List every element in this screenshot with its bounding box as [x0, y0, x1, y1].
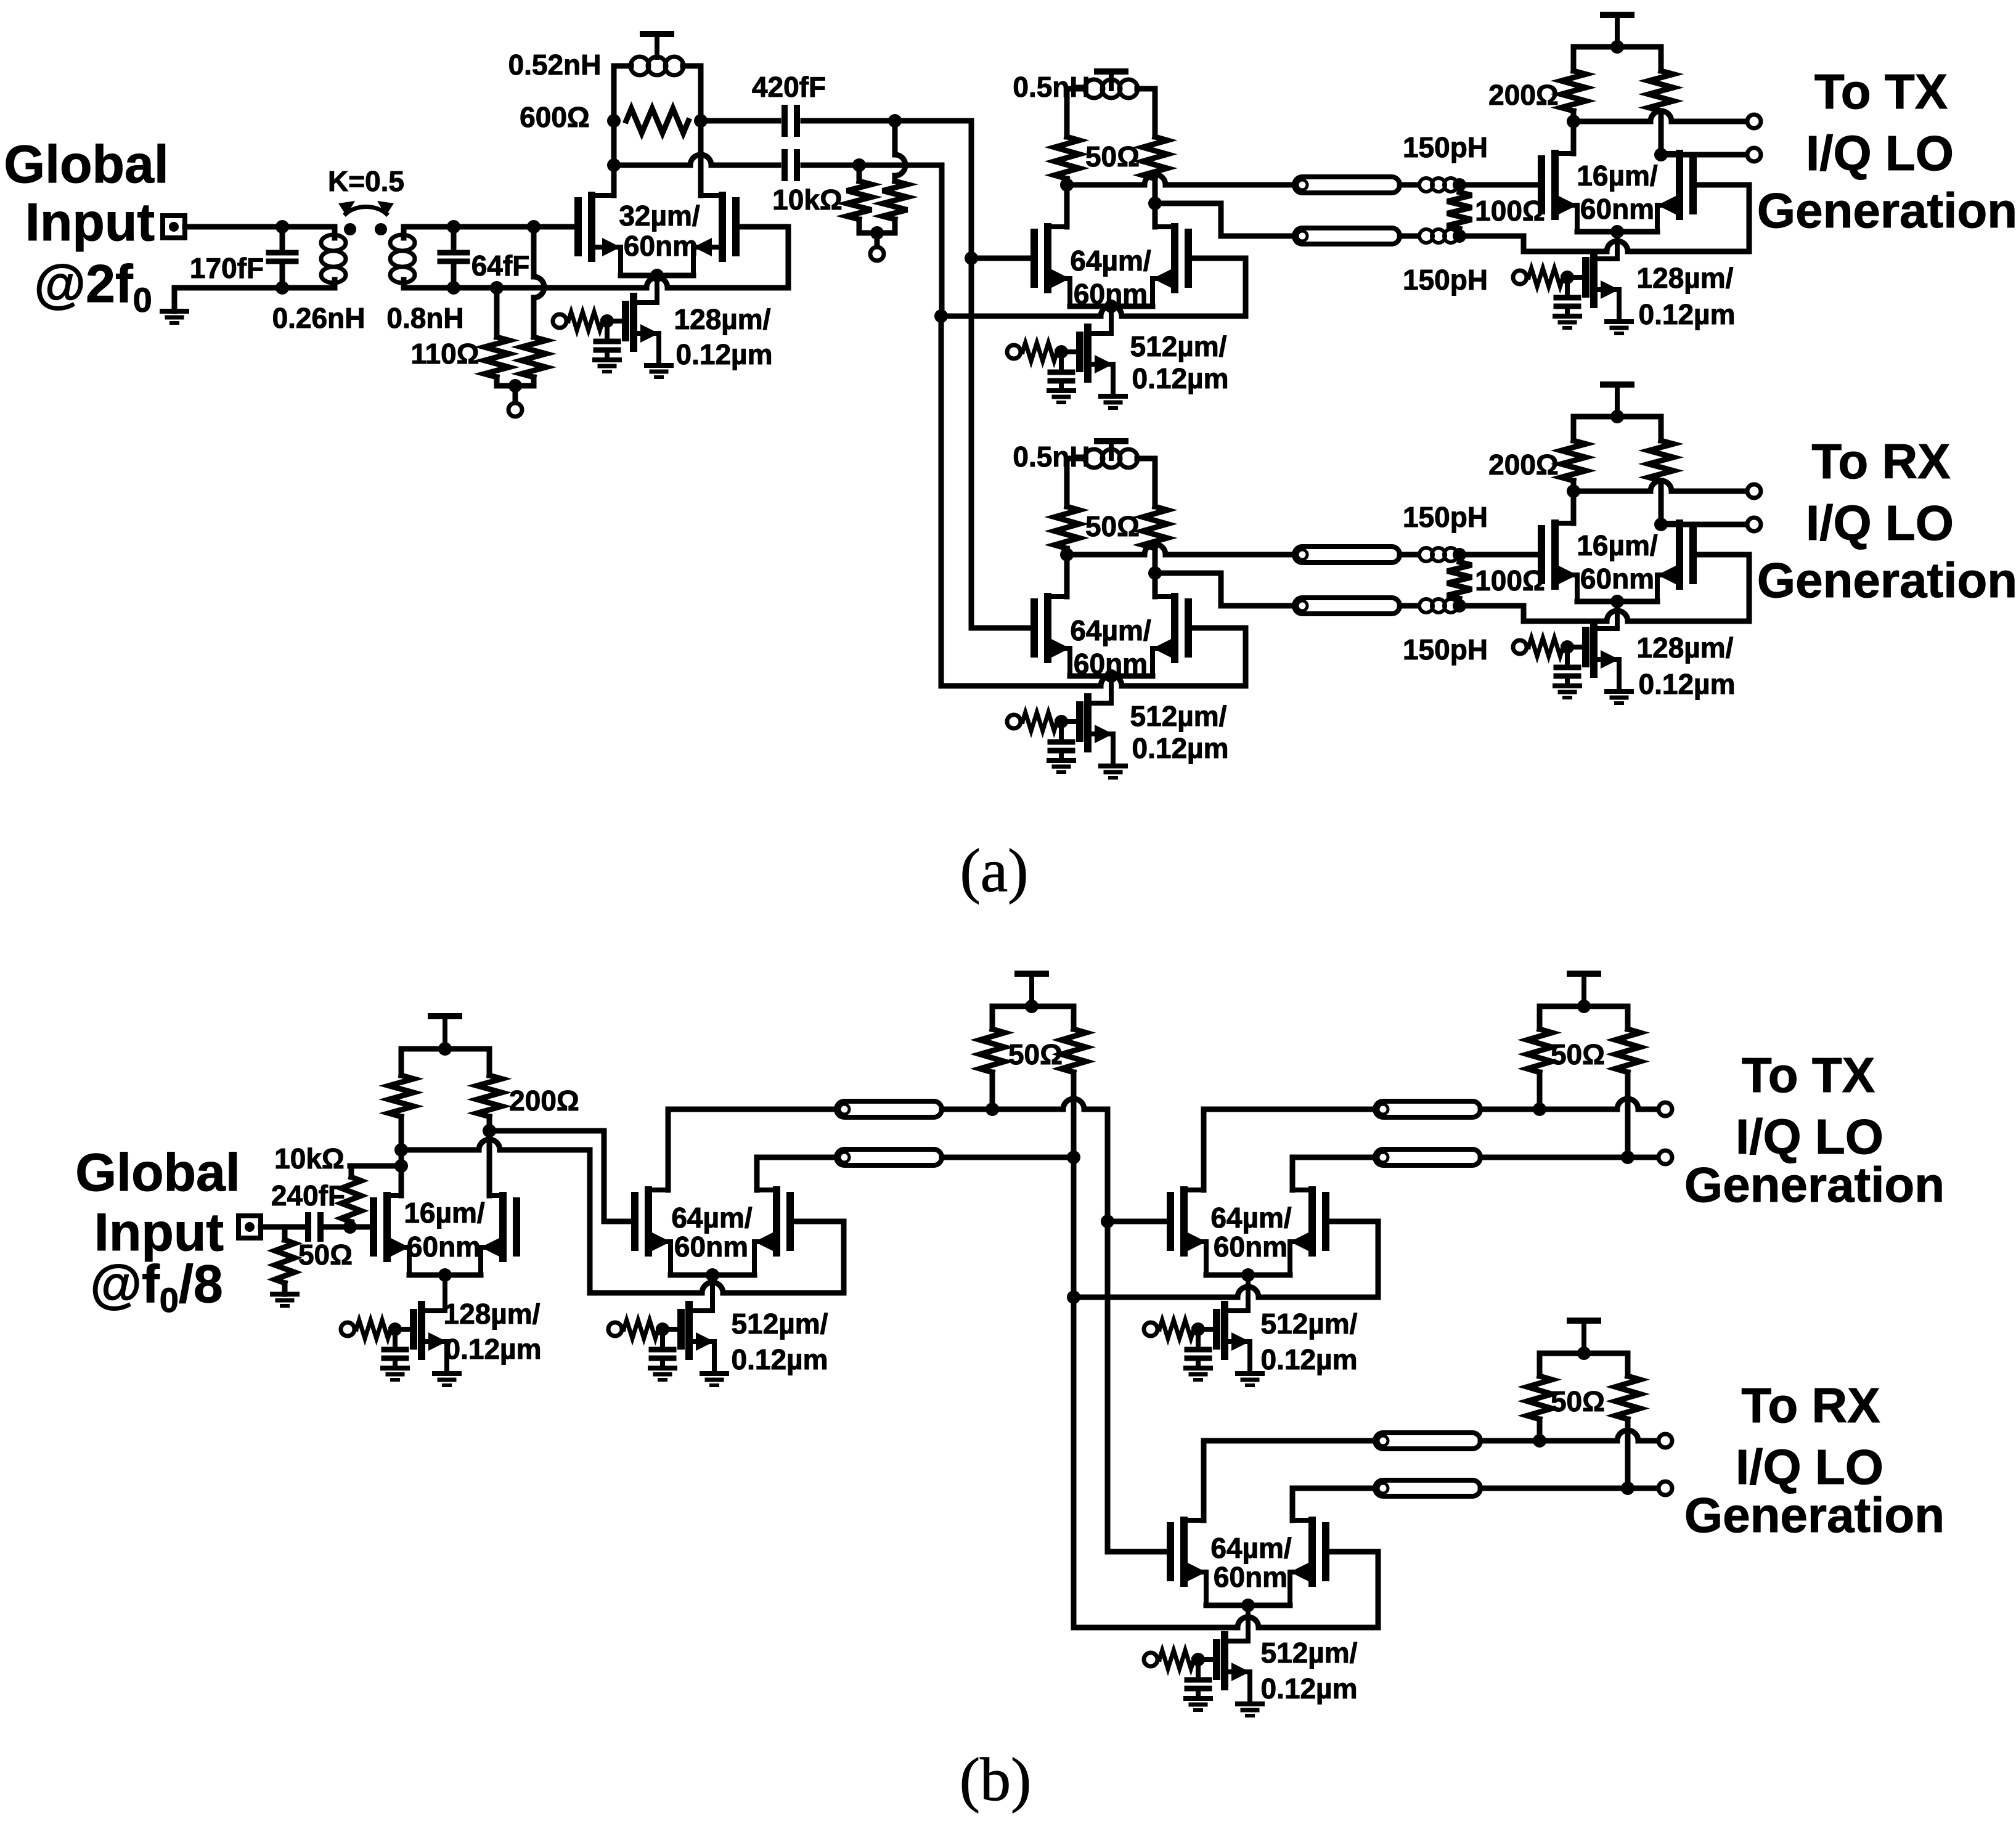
svg-text:0.5nH: 0.5nH	[1013, 441, 1090, 473]
svg-text:200Ω: 200Ω	[1488, 449, 1559, 481]
svg-text:50Ω: 50Ω	[1008, 1038, 1063, 1070]
svg-text:150pH: 150pH	[1403, 264, 1488, 296]
svg-text:To TX: To TX	[1814, 64, 1948, 119]
svg-text:16µm/: 16µm/	[404, 1197, 485, 1229]
svg-text:32µm/: 32µm/	[619, 200, 700, 232]
svg-text:60nm: 60nm	[1580, 563, 1654, 595]
svg-text:64fF: 64fF	[471, 250, 530, 282]
svg-text:128µm/: 128µm/	[674, 303, 771, 335]
svg-text:128µm/: 128µm/	[444, 1298, 541, 1330]
svg-text:10kΩ: 10kΩ	[274, 1143, 345, 1175]
svg-text:512µm/: 512µm/	[1130, 700, 1227, 732]
svg-text:0.12µm: 0.12µm	[1132, 362, 1229, 394]
svg-text:I/Q LO: I/Q LO	[1806, 495, 1954, 550]
svg-text:150pH: 150pH	[1403, 131, 1488, 163]
svg-text:512µm/: 512µm/	[1261, 1308, 1358, 1340]
svg-text:@f0/8: @f0/8	[90, 1255, 222, 1319]
svg-text:50Ω: 50Ω	[298, 1239, 353, 1271]
svg-text:100Ω: 100Ω	[1475, 195, 1545, 227]
svg-text:16µm/: 16µm/	[1577, 529, 1658, 561]
svg-text:Global: Global	[75, 1143, 240, 1202]
svg-text:Generation: Generation	[1757, 183, 2016, 238]
svg-text:60nm: 60nm	[407, 1231, 481, 1263]
svg-text:600Ω: 600Ω	[520, 101, 590, 133]
svg-text:512µm/: 512µm/	[1261, 1637, 1358, 1669]
svg-text:16µm/: 16µm/	[1577, 160, 1658, 192]
svg-text:0.12µm: 0.12µm	[1132, 732, 1229, 764]
svg-text:@2f0: @2f0	[34, 255, 152, 319]
svg-text:64µm/: 64µm/	[1210, 1202, 1292, 1234]
svg-text:0.12µm: 0.12µm	[1261, 1343, 1358, 1375]
svg-text:(b): (b)	[960, 1745, 1032, 1814]
svg-text:Global: Global	[4, 135, 169, 194]
svg-text:60nm: 60nm	[674, 1231, 748, 1263]
svg-text:To RX: To RX	[1811, 434, 1950, 489]
svg-text:64µm/: 64µm/	[1070, 245, 1151, 277]
svg-text:100Ω: 100Ω	[1475, 564, 1545, 597]
svg-text:0.8nH: 0.8nH	[386, 302, 463, 334]
svg-text:Input: Input	[25, 193, 155, 252]
svg-text:I/Q LO: I/Q LO	[1736, 1109, 1883, 1164]
svg-text:K=0.5: K=0.5	[328, 165, 404, 197]
svg-text:0.12µm: 0.12µm	[1639, 298, 1736, 330]
svg-text:0.12µm: 0.12µm	[676, 338, 773, 370]
svg-text:50Ω: 50Ω	[1551, 1385, 1605, 1417]
svg-text:128µm/: 128µm/	[1637, 632, 1734, 664]
svg-text:64µm/: 64µm/	[1070, 614, 1151, 646]
svg-text:50Ω: 50Ω	[1085, 141, 1140, 173]
svg-text:512µm/: 512µm/	[732, 1308, 828, 1340]
svg-text:0.5nH: 0.5nH	[1013, 71, 1090, 103]
svg-text:420fF: 420fF	[752, 71, 826, 103]
svg-text:I/Q LO: I/Q LO	[1736, 1440, 1883, 1494]
svg-text:200Ω: 200Ω	[509, 1085, 579, 1117]
svg-text:128µm/: 128µm/	[1637, 262, 1734, 294]
svg-text:0.12µm: 0.12µm	[1261, 1672, 1358, 1705]
svg-text:Generation: Generation	[1684, 1157, 1945, 1212]
svg-text:0.52nH: 0.52nH	[508, 49, 602, 81]
svg-text:To RX: To RX	[1741, 1378, 1880, 1433]
svg-text:10kΩ: 10kΩ	[772, 184, 843, 216]
svg-text:110Ω: 110Ω	[410, 338, 479, 370]
svg-text:240fF: 240fF	[271, 1179, 345, 1212]
svg-text:512µm/: 512µm/	[1130, 330, 1227, 362]
svg-text:150pH: 150pH	[1403, 633, 1488, 666]
svg-text:(a): (a)	[960, 836, 1029, 905]
svg-text:I/Q LO: I/Q LO	[1806, 126, 1954, 181]
svg-text:150pH: 150pH	[1403, 501, 1488, 533]
svg-text:0.12µm: 0.12µm	[1639, 668, 1736, 700]
svg-text:60nm: 60nm	[1214, 1561, 1288, 1593]
svg-text:60nm: 60nm	[1580, 193, 1654, 225]
svg-text:64µm/: 64µm/	[1210, 1532, 1292, 1564]
svg-text:200Ω: 200Ω	[1488, 79, 1559, 111]
svg-text:50Ω: 50Ω	[1551, 1038, 1605, 1070]
svg-text:50Ω: 50Ω	[1085, 510, 1140, 542]
svg-text:60nm: 60nm	[624, 230, 698, 262]
svg-text:0.26nH: 0.26nH	[272, 302, 365, 334]
svg-text:170fF: 170fF	[190, 252, 264, 284]
svg-text:0.12µm: 0.12µm	[732, 1343, 828, 1375]
svg-text:60nm: 60nm	[1214, 1231, 1288, 1263]
svg-text:0.12µm: 0.12µm	[445, 1333, 542, 1365]
svg-text:To TX: To TX	[1742, 1048, 1875, 1102]
svg-text:Generation: Generation	[1757, 553, 2016, 608]
svg-text:64µm/: 64µm/	[671, 1202, 753, 1234]
svg-text:Input: Input	[94, 1203, 224, 1262]
svg-text:Generation: Generation	[1684, 1488, 1945, 1542]
